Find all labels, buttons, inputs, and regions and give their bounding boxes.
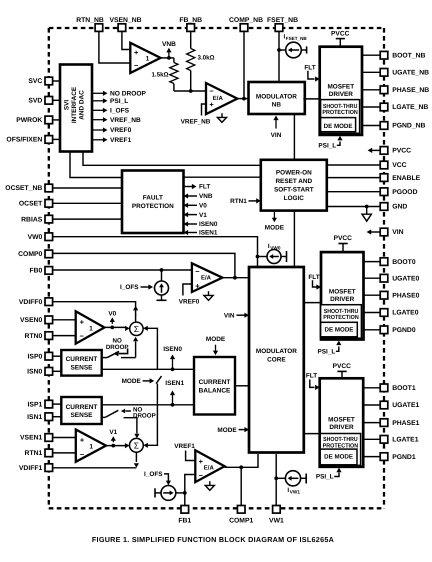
wire RTN1 to buffer1 - input — [53, 452, 76, 454]
svg-text:SENSE: SENSE — [70, 412, 93, 419]
signal NO DROOP from SVI — [93, 91, 147, 98]
wire E/A0 output to MODULATOR CORE — [222, 276, 249, 280]
svg-text:PSI_L: PSI_L — [110, 98, 128, 105]
svg-text:ISN0: ISN0 — [27, 369, 42, 376]
svg-text:+: + — [80, 317, 85, 326]
wire LGATE_NB to driver — [362, 106, 381, 108]
svg-text:MOSFET: MOSFET — [328, 417, 355, 424]
block CURRENT SENSE (channel 1) — [61, 397, 101, 424]
svg-text:AND DAC: AND DAC — [79, 90, 86, 120]
svg-text:VREF_NB: VREF_NB — [181, 118, 211, 125]
wire PHASE1 to driver 1 — [363, 422, 381, 424]
resistor 3.0k — [187, 49, 215, 92]
svg-text:ISP1: ISP1 — [28, 401, 43, 408]
wire UGATE1 to driver 1 — [363, 404, 381, 406]
block POWER-ON RESET AND SOFT-START LOGIC — [261, 160, 327, 211]
svg-text:PHASE_NB: PHASE_NB — [392, 87, 429, 94]
wire ENABLE to POWER-ON block — [327, 177, 381, 179]
terminal ISN1 — [27, 413, 52, 421]
signal PSI_L into DE MODE (NB) — [318, 136, 342, 150]
signal MODE out of POWER-ON RESET block — [265, 211, 285, 231]
svg-text:SENSE: SENSE — [70, 364, 93, 371]
terminal UGATE1 — [380, 401, 419, 409]
current source I_VW0 — [258, 243, 287, 264]
svg-text:−: − — [80, 332, 85, 341]
wire LGATE0 to driver 0 — [364, 312, 381, 314]
signal MODE into CURRENT BALANCE — [206, 336, 226, 355]
svg-text:SOFT-START: SOFT-START — [274, 186, 314, 193]
svg-text:PVCC: PVCC — [392, 148, 411, 155]
svg-text:PSI_L: PSI_L — [316, 474, 334, 481]
terminal LGATE0 — [380, 309, 419, 317]
svg-text:FLT: FLT — [199, 184, 210, 191]
svg-text:−: − — [195, 267, 200, 276]
svg-text:VREF1: VREF1 — [110, 137, 132, 144]
switch NO DROOP (channel 0) — [102, 348, 136, 357]
svg-text:FSET_NB: FSET_NB — [286, 36, 308, 41]
wire VDIFF0 from summing node — [53, 302, 139, 322]
terminal VCC — [380, 161, 406, 169]
wire COMP0 to E/A0 output — [53, 253, 235, 277]
terminal OCSET_NB — [5, 184, 52, 192]
svg-text:SHOOT-THRU: SHOOT-THRU — [323, 436, 358, 443]
terminal PHASE_NB — [380, 86, 429, 94]
wire E/A NB output to MODULATOR NB — [237, 97, 249, 101]
svg-text:ISEN0: ISEN0 — [199, 221, 218, 228]
resistor 1.5k — [151, 58, 178, 91]
svg-text:PSI_L: PSI_L — [318, 143, 336, 150]
svg-text:+: + — [134, 48, 139, 57]
ground symbol at GND net — [362, 207, 371, 222]
signal V1 into FAULT PROTECTION — [184, 212, 208, 219]
terminal PHASE0 — [380, 291, 419, 299]
svg-text:VIN: VIN — [224, 312, 235, 319]
svg-text:FIGURE 1. SIMPLIFIED FUNCTION: FIGURE 1. SIMPLIFIED FUNCTION BLOCK DIAG… — [92, 535, 334, 544]
ground symbol under E/A0 — [204, 291, 213, 300]
terminal BOOT1 — [380, 384, 416, 392]
net ISEN0 (current sense 0 to current balance) — [102, 367, 194, 371]
block MOSFET DRIVER 0 — [321, 252, 364, 339]
svg-text:−: − — [134, 61, 139, 70]
wire OCSET_NB to FAULT PROTECTION — [53, 187, 122, 189]
svg-text:PSI_L: PSI_L — [318, 349, 336, 356]
svg-text:LGATE1: LGATE1 — [392, 437, 419, 444]
wire OCSET to FAULT PROTECTION — [53, 202, 122, 204]
svg-text:−: − — [199, 471, 204, 480]
terminal RTN0 — [25, 332, 53, 340]
terminal OCSET — [19, 200, 53, 208]
svg-text:VREF1: VREF1 — [174, 443, 195, 450]
svg-text:PWROK: PWROK — [16, 117, 42, 124]
signal FLT out of FAULT PROTECTION — [184, 184, 211, 191]
chip boundary (dashed border) bottom edge — [49, 507, 384, 509]
wire VSEN1 to buffer1 + input — [53, 437, 76, 439]
wire RTN0 to buffer0 - input — [53, 335, 76, 337]
svg-text:PROTECTION: PROTECTION — [322, 109, 358, 116]
wire BOOT_NB to driver — [362, 54, 381, 56]
svg-text:VIN: VIN — [271, 132, 282, 139]
terminal PGND0 — [380, 326, 416, 334]
block DE MODE (driver 0) — [321, 322, 358, 337]
svg-text:RTN1: RTN1 — [230, 198, 247, 205]
svg-text:SHOOT-THRU: SHOOT-THRU — [323, 103, 358, 110]
svg-text:PROTECTION: PROTECTION — [132, 203, 174, 210]
svg-text:SHOOT-THRU: SHOOT-THRU — [324, 308, 359, 315]
svg-text:COMP_NB: COMP_NB — [229, 17, 263, 24]
terminal UGATE_NB — [380, 69, 429, 77]
caption FIGURE 1 — [92, 535, 334, 544]
terminal VSEN0 — [20, 316, 53, 324]
wire FAULT PROTECTION to POWER-ON RESET block — [184, 176, 261, 178]
summing junction (channel 0) — [130, 322, 143, 335]
wire VIN rail MODULATOR NB to POWER-ON block — [293, 114, 295, 160]
wire FB_NB down to resistor — [190, 31, 192, 48]
svg-text:ISEN1: ISEN1 — [199, 230, 218, 237]
svg-text:3.0kΩ: 3.0kΩ — [198, 55, 215, 62]
svg-text:MODE: MODE — [122, 378, 142, 385]
ground symbol under E/A NB — [217, 113, 226, 122]
terminal FB_NB — [179, 17, 202, 32]
svg-text:DE MODE: DE MODE — [324, 123, 353, 130]
wire RTN_NB to buffer - input — [99, 31, 130, 63]
block CURRENT SENSE (channel 0) — [61, 350, 101, 376]
svg-text:DE MODE: DE MODE — [324, 454, 353, 461]
terminal COMP1 — [229, 506, 253, 525]
wire PGND_NB to driver — [362, 125, 381, 127]
svg-text:FLT: FLT — [304, 64, 315, 71]
svg-text:INTERFACE: INTERFACE — [71, 86, 78, 123]
signal label ISEN0 — [163, 346, 182, 370]
svg-text:PHASE1: PHASE1 — [392, 420, 419, 427]
svg-text:E/A: E/A — [201, 275, 212, 282]
chip boundary (dashed border) left edge — [48, 28, 50, 508]
op-amp buffer 1 (channel 0) — [76, 311, 105, 343]
block DE MODE (driver 1) — [320, 449, 357, 465]
svg-text:BALANCE: BALANCE — [199, 387, 231, 394]
svg-text:PHASE0: PHASE0 — [392, 292, 419, 299]
wire VIN arrow into MODULATOR NB bottom — [271, 116, 282, 139]
svg-text:ISN1: ISN1 — [27, 414, 42, 421]
block SHOOT-THRU PROTECTION (driver 1) — [320, 434, 360, 466]
terminal BOOT0 — [380, 258, 416, 266]
signal PSI_L from SVI — [93, 98, 129, 105]
label NO DROOP (channel 1) with arrow — [121, 406, 156, 419]
wire SVD to SVI — [53, 99, 60, 101]
svg-text:Σ: Σ — [134, 324, 139, 334]
wire SVC to SVI — [53, 80, 60, 82]
wire VREF_NB to E/A NB + input — [181, 104, 211, 125]
op-amp buffer 1 (north bridge) — [130, 43, 160, 73]
svg-text:CURRENT: CURRENT — [66, 356, 98, 363]
svg-text:UGATE1: UGATE1 — [392, 402, 419, 409]
signal MODE into MODULATOR CORE — [217, 427, 249, 434]
wire SVI to POWER-ON RESET block — [83, 152, 261, 166]
terminal VIN with input arrow — [367, 228, 404, 236]
svg-text:FAULT: FAULT — [143, 195, 163, 202]
svg-text:MODULATOR: MODULATOR — [256, 93, 297, 100]
svg-text:Σ: Σ — [134, 441, 139, 451]
signal VIN into MODULATOR CORE — [224, 312, 249, 319]
signal FLT into driver 0 — [308, 274, 321, 290]
wire VSEN_NB to buffer + input — [122, 31, 130, 49]
svg-text:LGATE0: LGATE0 — [392, 310, 419, 317]
wire UGATE_NB to driver — [362, 71, 381, 73]
ground symbol under E/A1 — [205, 481, 214, 490]
svg-text:MOSFET: MOSFET — [327, 84, 354, 91]
signal V0 into FAULT PROTECTION — [184, 203, 208, 210]
svg-text:VNB: VNB — [199, 193, 213, 200]
wire LGATE1 to driver 1 — [363, 438, 381, 440]
terminal COMP_NB — [229, 17, 263, 32]
svg-text:MODE: MODE — [217, 427, 237, 434]
wire RBIAS to FAULT PROTECTION — [53, 218, 122, 220]
svg-text:OFS/FIXEN: OFS/FIXEN — [6, 137, 42, 144]
svg-text:−: − — [80, 450, 85, 459]
terminal COMP0 — [18, 250, 52, 258]
signal MODE at isen switch — [122, 378, 155, 385]
block SVI INTERFACE AND DAC — [60, 65, 92, 152]
svg-text:BOOT0: BOOT0 — [392, 259, 416, 266]
svg-text:VW0: VW0 — [270, 246, 281, 251]
terminal RTN1 — [25, 449, 53, 457]
signal ISEN1 into FAULT PROTECTION — [184, 230, 218, 237]
summing junction (channel 1) — [130, 438, 144, 452]
wire OFS/FIXEN to SVI — [53, 138, 60, 140]
signal label I_OFS (channel 0) — [120, 284, 153, 291]
wire CURRENT BALANCE to MODULATOR CORE — [235, 385, 249, 387]
svg-text:PVCC: PVCC — [331, 30, 350, 37]
svg-text:DRIVER: DRIVER — [330, 296, 355, 303]
terminal ISN0 — [27, 368, 52, 376]
svg-text:VCC: VCC — [392, 162, 406, 169]
svg-text:VW1: VW1 — [269, 518, 284, 525]
wire droop bus to summing junction 0 — [143, 326, 157, 370]
op-amp E/A1 — [195, 450, 224, 482]
svg-text:+: + — [80, 436, 85, 445]
terminal ISP1 — [28, 400, 53, 408]
wire PWROK to SVI — [53, 119, 60, 121]
svg-text:1: 1 — [146, 55, 150, 62]
terminal GND — [380, 203, 407, 211]
svg-text:I_OFS: I_OFS — [144, 471, 163, 478]
svg-text:VSEN_NB: VSEN_NB — [109, 17, 141, 24]
wire FB0 to E/A0 inverting input — [53, 268, 192, 272]
terminal VSEN1 — [20, 434, 53, 442]
svg-text:SVC: SVC — [28, 78, 42, 85]
wire PGOOD to POWER-ON block — [327, 191, 381, 193]
svg-text:MODE: MODE — [206, 336, 226, 343]
arrow V0 into summing junction 0 — [125, 326, 130, 331]
svg-text:POWER-ON: POWER-ON — [276, 169, 312, 176]
svg-text:MODE: MODE — [265, 225, 285, 232]
current source I_OFS (channel 0) — [155, 270, 169, 300]
wire SVI to FAULT PROTECTION — [70, 152, 122, 178]
terminal RTN_NB — [76, 17, 104, 32]
terminal VSEN_NB — [109, 17, 141, 32]
wire ISP0 to CURRENT SENSE 0 — [53, 355, 62, 357]
svg-text:RESET AND: RESET AND — [275, 178, 312, 185]
terminal UGATE0 — [380, 274, 419, 282]
svg-text:VREF_NB: VREF_NB — [110, 117, 141, 124]
power symbol PVCC (driver 1) — [333, 363, 352, 378]
svg-text:DROOP: DROOP — [133, 413, 156, 420]
current source I_FSET_NB — [279, 34, 307, 58]
svg-text:DRIVER: DRIVER — [329, 91, 354, 98]
svg-text:−: − — [209, 87, 214, 96]
svg-text:CORE: CORE — [267, 356, 286, 363]
wire BOOT0 to driver 0 — [364, 261, 381, 263]
wire MODULATOR CORE pwm to MOSFET DRIVER 1 — [304, 433, 320, 435]
svg-text:COMP1: COMP1 — [229, 518, 253, 525]
svg-text:FLT: FLT — [308, 274, 319, 281]
block CURRENT BALANCE — [194, 357, 235, 415]
terminal LGATE_NB — [380, 103, 428, 111]
terminal PGOOD — [380, 188, 417, 196]
wire FSET_NB to MODULATOR NB — [277, 31, 281, 82]
svg-text:RBIAS: RBIAS — [21, 216, 43, 223]
arrow V1 into summing junction 1 — [125, 443, 130, 448]
chip boundary (dashed border) right edge — [383, 28, 385, 508]
svg-text:1.5kΩ: 1.5kΩ — [151, 72, 168, 79]
svg-text:VNB: VNB — [162, 41, 176, 48]
svg-text:VSEN0: VSEN0 — [20, 317, 43, 324]
power symbol PVCC (driver NB) — [331, 30, 350, 46]
svg-text:V0: V0 — [108, 310, 116, 317]
signal RTN1 into POWER-ON RESET block — [230, 198, 261, 205]
signal PSI_L into DE MODE (driver 1) — [316, 468, 342, 481]
svg-text:DE MODE: DE MODE — [325, 327, 354, 334]
node VNB (buffer output) — [161, 41, 177, 60]
current source I_VW1 — [276, 471, 306, 495]
wire PHASE0 to driver 0 — [364, 294, 381, 296]
svg-text:FSET_NB: FSET_NB — [267, 17, 298, 24]
terminal LGATE1 — [380, 436, 419, 444]
svg-text:FLT: FLT — [306, 373, 317, 380]
current source I_OFS (channel 1) — [155, 486, 185, 501]
power symbol PVCC (driver 0) — [334, 235, 353, 252]
wire VCC to POWER-ON block — [327, 164, 381, 166]
svg-text:UGATE_NB: UGATE_NB — [392, 70, 429, 77]
svg-text:PVCC: PVCC — [333, 363, 352, 370]
signal VREF_NB from SVI — [93, 117, 142, 124]
node V1 — [106, 429, 126, 447]
switch NO DROOP (channel 1) — [102, 410, 140, 438]
svg-text:RTN_NB: RTN_NB — [76, 17, 104, 24]
label NO DROOP (channel 0) — [106, 337, 129, 351]
wire VW0 to I_VW0 node — [53, 237, 260, 267]
signal I_OFS from SVI — [93, 108, 130, 115]
wire summing junction 1 to VDIFF1 — [53, 452, 139, 468]
svg-text:GND: GND — [392, 204, 407, 211]
svg-text:VDIFF0: VDIFF0 — [19, 299, 43, 306]
wire ISN1 to CURRENT SENSE 1 — [53, 416, 62, 418]
signal VREF0 from SVI — [93, 127, 132, 134]
svg-text:SVD: SVD — [28, 98, 42, 105]
terminal PVCC with input arrow — [368, 147, 412, 155]
wire PGND1 to driver 1 — [363, 456, 381, 458]
svg-text:DROOP: DROOP — [106, 344, 129, 351]
svg-text:VREF0: VREF0 — [110, 127, 132, 134]
wire VIN rail POWER-ON block to MODULATOR CORE — [293, 211, 295, 267]
terminal PGND1 — [380, 453, 416, 461]
svg-text:CURRENT: CURRENT — [199, 379, 231, 386]
terminal VW0 — [28, 233, 53, 241]
svg-text:NO DROOP: NO DROOP — [110, 91, 147, 98]
signal FLT into driver NB — [304, 64, 319, 81]
terminal ENABLE — [380, 174, 420, 182]
wire ISN0 to CURRENT SENSE 0 — [53, 370, 62, 372]
block MOSFET DRIVER 1 — [320, 378, 364, 467]
signal label ISEN1 — [165, 380, 184, 405]
svg-text:FB_NB: FB_NB — [179, 17, 202, 24]
wire VW1 to MODULATOR CORE — [274, 454, 278, 505]
terminal OFS/FIXEN — [6, 136, 52, 144]
switch MODE (isen bus) — [156, 376, 161, 405]
svg-text:VIN: VIN — [392, 229, 403, 236]
wire UGATE0 to driver 0 — [364, 277, 381, 279]
wire VSEN0 to buffer0 + input — [53, 319, 76, 321]
terminal ISP0 — [28, 352, 53, 360]
svg-text:VREF0: VREF0 — [179, 298, 200, 305]
svg-text:1: 1 — [89, 444, 93, 451]
svg-text:PGND0: PGND0 — [392, 327, 416, 334]
wire E/A1 output to MODULATOR CORE and COMP1 — [225, 454, 258, 505]
wire MODULATOR CORE pwm to MOSFET DRIVER 0 — [304, 302, 321, 304]
svg-text:V1: V1 — [109, 429, 117, 436]
svg-text:PROTECTION: PROTECTION — [323, 314, 359, 321]
signal VREF1 from SVI — [93, 137, 132, 144]
svg-text:V1: V1 — [199, 212, 207, 219]
block FAULT PROTECTION — [122, 171, 184, 234]
svg-text:ENABLE: ENABLE — [392, 175, 420, 182]
wire PHASE_NB to driver — [362, 89, 381, 91]
block DE MODE (NB) — [321, 118, 356, 132]
signal ISEN0 into FAULT PROTECTION — [184, 221, 218, 228]
svg-text:OCSET_NB: OCSET_NB — [5, 185, 42, 192]
terminal VDIFF1 — [19, 464, 53, 472]
svg-text:I_OFS: I_OFS — [120, 284, 139, 291]
svg-text:E/A: E/A — [213, 95, 224, 102]
svg-text:LGATE_NB: LGATE_NB — [392, 104, 428, 111]
block MODULATOR CORE — [249, 267, 304, 453]
svg-text:ISEN1: ISEN1 — [165, 380, 184, 387]
terminal FSET_NB — [267, 17, 298, 32]
node V0 — [104, 310, 126, 329]
svg-text:CURRENT: CURRENT — [66, 404, 98, 411]
signal VNB into FAULT PROTECTION — [184, 193, 213, 200]
wire FB1 to E/A1 inverting input — [183, 475, 195, 506]
block SHOOT-THRU PROTECTION (NB) — [321, 100, 360, 134]
svg-text:MOSFET: MOSFET — [329, 289, 356, 296]
svg-text:PGND1: PGND1 — [392, 454, 416, 461]
svg-text:BOOT1: BOOT1 — [392, 385, 416, 392]
wire droop bus to summing junction 1 — [143, 405, 157, 448]
net FB node to E/A NB inverting input — [174, 89, 206, 93]
wire COMP_NB to E/A NB output — [243, 31, 245, 98]
terminal SVD — [28, 97, 52, 105]
svg-text:I_OFS: I_OFS — [110, 108, 130, 115]
signal FLT into driver 1 — [306, 373, 320, 390]
signal PSI_L into DE MODE (driver 0) — [318, 341, 342, 356]
terminal FB1 — [178, 506, 191, 525]
svg-text:RTN1: RTN1 — [25, 450, 43, 457]
svg-text:VW0: VW0 — [28, 234, 43, 241]
svg-text:VDIFF1: VDIFF1 — [19, 465, 43, 472]
wire MODULATOR NB pwm to MOSFET DRIVER NB — [303, 98, 319, 100]
svg-text:VSEN1: VSEN1 — [20, 435, 43, 442]
svg-text:E/A: E/A — [204, 465, 215, 472]
svg-text:COMP0: COMP0 — [18, 251, 42, 258]
